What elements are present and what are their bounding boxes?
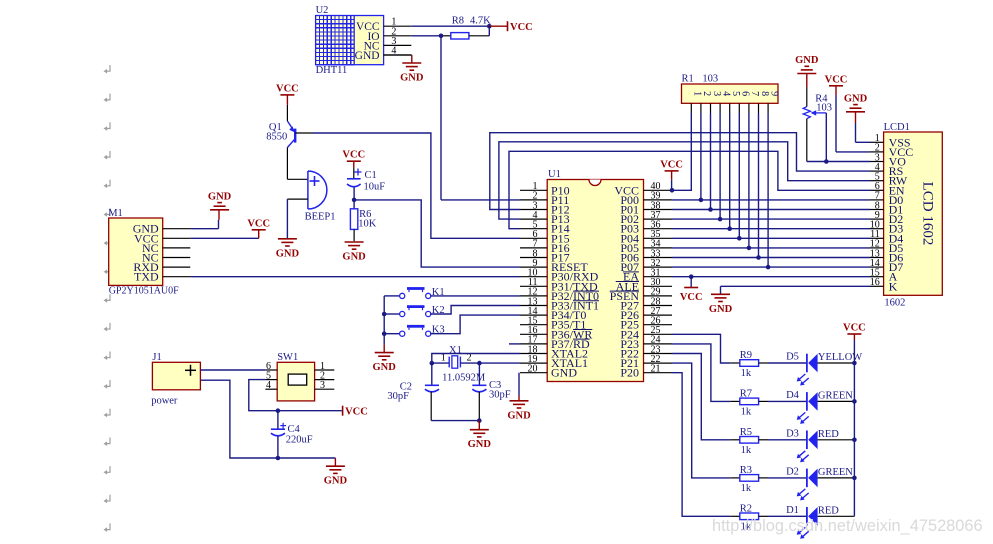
svg-text:GND: GND xyxy=(355,50,380,62)
svg-text:GREEN: GREEN xyxy=(818,467,853,478)
LED D3 RED xyxy=(786,428,839,462)
wire LED common VCC rail xyxy=(852,340,857,516)
wire stub at U1 P37 xyxy=(509,343,520,345)
wire C4 to ground rail xyxy=(276,436,336,461)
svg-text:U2: U2 xyxy=(316,5,329,16)
svg-text:220uF: 220uF xyxy=(286,435,313,446)
resistor R7 1k xyxy=(730,388,768,417)
svg-text:1k: 1k xyxy=(741,368,752,379)
svg-text:4: 4 xyxy=(266,380,271,391)
wire DHT11 VCC to VCC port xyxy=(411,24,507,29)
wire P03 to LCD D3 xyxy=(672,228,870,230)
push button K1 xyxy=(384,287,444,299)
svg-text:VCC: VCC xyxy=(247,218,270,229)
wire K1 to U1 P32/INT0 xyxy=(430,295,520,297)
svg-text:8: 8 xyxy=(759,91,770,96)
wire D5 to VCC rail xyxy=(818,362,855,364)
wire U1 P22 to R5 xyxy=(672,354,730,440)
resistor R6 10K xyxy=(350,200,376,241)
svg-text:GND: GND xyxy=(795,55,819,66)
svg-text:GND: GND xyxy=(324,476,348,487)
wire C3 bottom to ground node xyxy=(477,392,482,423)
svg-text:GND: GND xyxy=(342,252,366,263)
ground (C4) xyxy=(324,458,348,487)
svg-text:5: 5 xyxy=(730,91,741,96)
wire U1 P14 to LCD EN xyxy=(509,151,870,228)
connector J1 power xyxy=(151,352,200,407)
wire K2 to U1 P33/INT1 xyxy=(430,306,520,315)
svg-text:RED: RED xyxy=(818,429,839,440)
wire C1 to reset node xyxy=(352,188,357,203)
svg-text:GND: GND xyxy=(208,191,232,202)
svg-text:1k: 1k xyxy=(741,406,752,417)
wire R1 pin6 to P04 bus xyxy=(737,113,742,241)
LED D1 RED xyxy=(786,505,839,539)
decorative margin marks xyxy=(104,65,111,532)
svg-text:C4: C4 xyxy=(288,424,301,435)
wire R1 pin1 to VCC net xyxy=(672,113,691,190)
wire D4 to VCC rail xyxy=(818,400,855,402)
svg-text:BEEP1: BEEP1 xyxy=(305,212,336,223)
wire P00 to LCD D0 xyxy=(672,199,870,201)
wire buzzer to ground xyxy=(287,199,308,238)
svg-text:1k: 1k xyxy=(741,483,752,494)
wire LCD VCC pin xyxy=(836,95,870,152)
ground (DHT11) xyxy=(400,63,424,84)
wire U1 P12 to LCD RS xyxy=(490,133,870,210)
svg-text:R8: R8 xyxy=(452,16,464,27)
wire J1 to SW1 pin6 xyxy=(200,369,265,371)
wire M1 GND pin xyxy=(190,210,219,229)
svg-text:R9: R9 xyxy=(740,350,752,361)
transistor Q1 8550 xyxy=(266,105,295,148)
svg-text:VCC: VCC xyxy=(843,323,866,334)
wire R2 to D1 xyxy=(768,515,806,517)
wire U1 P24 to R9 xyxy=(672,334,730,363)
wire M1 TXD to U1 P30/RXD xyxy=(190,276,520,278)
wire R1 pin5 to P03 bus xyxy=(727,113,732,231)
svg-text:16: 16 xyxy=(870,277,880,288)
wire D2 to VCC rail xyxy=(818,477,855,479)
resistor R5 1k xyxy=(730,427,768,456)
ground (crystal) xyxy=(468,421,492,451)
svg-text:1: 1 xyxy=(692,91,703,96)
svg-text:R5: R5 xyxy=(740,427,752,438)
resistor R3 1k xyxy=(730,465,768,494)
power port VCC (near R8) xyxy=(508,21,533,33)
svg-text:VCC: VCC xyxy=(342,150,365,161)
ground (BEEP1) xyxy=(276,239,300,259)
svg-text:K: K xyxy=(889,279,898,293)
wire LCD VSS to ground xyxy=(856,123,871,142)
buzzer BEEP1 xyxy=(305,171,336,223)
svg-text:30pF: 30pF xyxy=(489,390,511,401)
wire R1 pin4 to P02 bus xyxy=(718,113,723,221)
wire R1 pin8 to P06 bus xyxy=(756,113,761,260)
svg-text:VCC: VCC xyxy=(660,159,683,170)
svg-text:4: 4 xyxy=(720,91,731,96)
svg-text:R1: R1 xyxy=(682,74,694,85)
svg-text:D3: D3 xyxy=(786,428,799,439)
power port VCC (C1) xyxy=(342,150,365,168)
svg-text:P20: P20 xyxy=(620,366,639,380)
ground (U1 pin20) xyxy=(507,396,531,422)
capacitor C1 10uF xyxy=(347,168,385,193)
ground (above R4) xyxy=(795,55,819,87)
wire C2 bottom to ground node xyxy=(431,392,479,421)
svg-text:R3: R3 xyxy=(740,465,752,476)
resistor R9 1k xyxy=(730,350,768,379)
svg-text:SW1: SW1 xyxy=(277,352,298,363)
svg-text:D4: D4 xyxy=(786,390,800,401)
svg-text:R7: R7 xyxy=(740,388,752,399)
svg-text:DHT11: DHT11 xyxy=(316,65,348,76)
power port VCC (M1) xyxy=(247,218,270,230)
wire P01 to LCD D1 xyxy=(672,209,870,211)
power port VCC (Q1) xyxy=(276,83,299,104)
svg-text:GP2Y1051AU0F: GP2Y1051AU0F xyxy=(109,286,179,297)
wire Q1 collector to buzzer xyxy=(287,148,308,180)
svg-text:R2: R2 xyxy=(740,503,752,514)
svg-text:30pF: 30pF xyxy=(387,391,409,402)
svg-text:GND: GND xyxy=(468,439,492,450)
wire R4 to LCD VO xyxy=(807,159,870,164)
svg-text:VCC: VCC xyxy=(345,407,368,418)
capacitor C3 30pF xyxy=(472,380,510,401)
svg-text:VCC: VCC xyxy=(276,83,299,94)
svg-text:D1: D1 xyxy=(786,505,799,516)
wire DHT11 IO to U1 P11 xyxy=(411,34,520,200)
svg-text:VCC: VCC xyxy=(510,22,533,33)
svg-text:103: 103 xyxy=(702,74,718,85)
wire U1 P21 to R3 xyxy=(672,363,730,478)
capacitor C4 220uF xyxy=(271,411,313,446)
power port VCC (LED rail) xyxy=(843,323,866,341)
watermark text xyxy=(712,517,983,535)
wire P07 to LCD D7 xyxy=(672,266,870,268)
svg-text:3: 3 xyxy=(320,380,325,391)
capacitor C2 30pF xyxy=(387,382,439,403)
power port VCC (EA) xyxy=(680,288,703,304)
wire U1 P23 to R7 xyxy=(672,344,730,402)
LED D5 YELLOW xyxy=(786,352,862,386)
wire D1 to VCC rail xyxy=(818,515,855,517)
ground (LCD VSS, inverted) xyxy=(844,93,868,123)
wire R5 to D3 xyxy=(768,439,806,441)
svg-text:RED: RED xyxy=(818,506,839,517)
svg-text:103: 103 xyxy=(816,103,832,114)
svg-text:http://blog.csdn.net/weixin_47: http://blog.csdn.net/weixin_47528066 xyxy=(712,517,983,535)
IC U1 (AT89C51 MCU) xyxy=(520,169,672,382)
svg-text:GND: GND xyxy=(276,248,300,259)
svg-text:9: 9 xyxy=(768,91,779,96)
LED D2 GREEN xyxy=(786,467,853,501)
wire D3 to VCC rail xyxy=(818,439,855,441)
wire DHT11 GND pin xyxy=(384,55,412,63)
wire R1 pin2 to P00 bus xyxy=(699,113,704,202)
wire U1 P13 to LCD RW xyxy=(499,142,870,219)
svg-text:GND: GND xyxy=(507,410,531,421)
sensor module M1 GP2Y1051AU0F xyxy=(108,208,190,297)
wire P04 to LCD D4 xyxy=(672,237,870,239)
wire R1 pin7 to P05 bus xyxy=(747,113,752,250)
svg-text:VCC: VCC xyxy=(680,292,703,303)
wire XTAL1 to X1.2 and C3 xyxy=(460,361,520,385)
svg-text:U1: U1 xyxy=(548,169,561,180)
push button K3 xyxy=(384,325,444,337)
svg-text:C1: C1 xyxy=(365,170,377,181)
wire SW1 pin5 to VCC node xyxy=(249,380,342,413)
wire P05 to LCD D5 xyxy=(672,247,870,249)
svg-text:GND: GND xyxy=(844,93,868,104)
wire U1 P20 to R2 xyxy=(672,373,730,517)
wire EA to LCD A with VCC tap xyxy=(672,274,870,287)
svg-text:GND: GND xyxy=(709,304,733,315)
wire R3 to D2 xyxy=(768,477,806,479)
svg-text:VCC: VCC xyxy=(825,74,848,85)
wire reset node to U1 RESET xyxy=(354,200,520,267)
power port VCC (U1 pin40) xyxy=(660,159,683,171)
svg-text:10uF: 10uF xyxy=(364,182,386,193)
wire R8 to VCC rail xyxy=(488,26,490,36)
svg-text:LCD 1602: LCD 1602 xyxy=(920,182,936,246)
wire J1 minus to ground rail xyxy=(200,380,278,458)
wire R1 pin3 to P01 bus xyxy=(708,113,713,212)
power port VCC (LCD) xyxy=(825,74,848,95)
wire P06 to LCD D6 xyxy=(672,257,870,259)
svg-text:GREEN: GREEN xyxy=(818,391,853,402)
wire R7 to D4 xyxy=(768,400,806,402)
wire P02 to LCD D2 xyxy=(672,218,870,220)
wire R1 pin9 to P07 bus xyxy=(766,113,771,269)
ground (M1, inverted) xyxy=(208,191,232,210)
svg-text:X1: X1 xyxy=(449,345,462,356)
svg-text:2: 2 xyxy=(467,353,472,364)
svg-text:21: 21 xyxy=(651,364,661,375)
svg-text:6: 6 xyxy=(740,91,751,96)
ground (buttons) xyxy=(373,344,397,373)
potentiometer R4 103 xyxy=(803,87,832,162)
svg-text:1: 1 xyxy=(441,353,446,364)
wire M1 VCC pin xyxy=(190,230,258,239)
push button K2 xyxy=(384,305,444,317)
wire K3 to U1 P34/T0 xyxy=(430,315,520,334)
svg-text:4.7K: 4.7K xyxy=(470,16,491,27)
LCD module LCD1 1602 xyxy=(870,122,943,309)
wire buttons common to ground xyxy=(382,296,387,345)
svg-text:8550: 8550 xyxy=(266,132,287,143)
wire XTAL2 to X1.1 and C2 xyxy=(430,354,521,386)
svg-text:TXD: TXD xyxy=(134,270,159,284)
wire LCD K to ground xyxy=(721,286,871,294)
wire U1 GND pin20 xyxy=(518,373,520,396)
svg-text:GND: GND xyxy=(551,366,577,380)
svg-text:GND: GND xyxy=(400,73,424,84)
ground (R6) xyxy=(342,242,366,263)
svg-text:J1: J1 xyxy=(152,352,161,363)
power port VCC (supply) xyxy=(343,406,368,418)
resistor R8 4.7K xyxy=(441,16,491,40)
resistor R2 1k xyxy=(730,503,768,532)
LED D4 GREEN xyxy=(786,390,853,424)
ground (LCD K) xyxy=(709,294,733,315)
wire Q1 base to U1 P15 xyxy=(295,133,520,238)
svg-text:D5: D5 xyxy=(786,352,799,363)
svg-text:GND: GND xyxy=(373,362,397,373)
svg-text:1602: 1602 xyxy=(884,298,905,309)
crystal X1 11.0592M xyxy=(441,345,486,384)
sensor U2 DHT11 xyxy=(316,5,412,76)
wire R9 to D5 xyxy=(768,362,806,364)
svg-text:7: 7 xyxy=(749,91,760,96)
svg-text:3: 3 xyxy=(711,91,722,96)
resistor network R1 103 xyxy=(682,74,780,114)
svg-text:D2: D2 xyxy=(786,467,799,478)
wire U1 VCC pin40 xyxy=(670,171,675,193)
svg-text:1k: 1k xyxy=(741,445,752,456)
switch SW1 xyxy=(265,352,334,401)
svg-text:10K: 10K xyxy=(358,219,377,230)
svg-text:power: power xyxy=(151,396,178,407)
svg-text:2: 2 xyxy=(701,91,712,96)
svg-text:20: 20 xyxy=(528,364,538,375)
